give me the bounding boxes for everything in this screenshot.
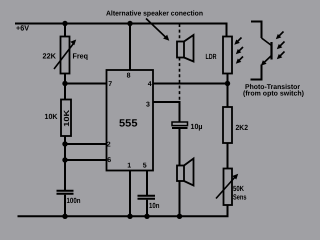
svg-text:6: 6 — [107, 157, 111, 164]
node junction pin6 — [62, 157, 67, 162]
node junction 22K top — [62, 21, 67, 26]
capacitor 10u electrolytic — [172, 122, 188, 126]
wire pin 7 — [65, 83, 107, 85]
wire pin 8 — [129, 24, 131, 70]
node junction pin1 rail — [127, 214, 132, 219]
svg-text:2K2: 2K2 — [236, 123, 249, 132]
node junction 10n rail — [144, 214, 149, 219]
svg-text:1: 1 — [127, 163, 131, 170]
svg-text:4: 4 — [148, 81, 152, 88]
wire emitter stub — [251, 65, 262, 80]
wire pin 6 — [65, 159, 107, 161]
potentiometer 50K Sens — [224, 169, 233, 206]
wire 2K2 to 50K — [227, 143, 229, 169]
svg-text:10K: 10K — [45, 112, 59, 121]
svg-text:Alternative speaker conection: Alternative speaker conection — [106, 9, 203, 17]
phototransistor light arrow 2 — [279, 42, 285, 48]
speaker LS1 (alternative) — [177, 42, 184, 58]
node junction 100n rail — [62, 214, 67, 219]
potentiometer 22K Freq — [61, 37, 70, 74]
svg-text:5: 5 — [143, 163, 147, 170]
wire ground rail — [18, 205, 228, 217]
LDR light arrow 3 — [238, 57, 243, 62]
wire pin 5 — [146, 171, 148, 196]
svg-text:100n: 100n — [67, 196, 81, 205]
node junction pin2 — [62, 141, 67, 146]
wire pin 4 — [153, 83, 228, 85]
wire pin 1 — [129, 171, 131, 217]
wire speaker bottom — [179, 181, 181, 216]
svg-text:555: 555 — [119, 117, 138, 129]
node junction LDR 2K2 — [225, 81, 230, 86]
transistor Q1 phototransistor top stub — [251, 22, 262, 39]
node junction speaker rail — [177, 214, 182, 219]
resistor 10K — [61, 100, 71, 137]
wire 22K top — [64, 24, 66, 37]
svg-text:8: 8 — [127, 72, 131, 79]
wire pin 3 — [153, 102, 180, 122]
transistor Q1 base bar — [270, 42, 272, 60]
wire +6V top rail — [15, 24, 227, 37]
node junction pin7 — [62, 81, 67, 86]
wire 10K bottom — [64, 136, 66, 190]
svg-text:10n: 10n — [149, 201, 160, 210]
wire 10u bottom to speaker — [179, 129, 181, 166]
svg-text:10K: 10K — [62, 109, 71, 127]
svg-text:(from opto switch): (from opto switch) — [243, 90, 304, 98]
svg-text:10µ: 10µ — [191, 122, 203, 131]
capacitor 10n — [138, 195, 156, 197]
svg-text:LDR: LDR — [206, 52, 217, 61]
svg-text:2: 2 — [107, 142, 111, 149]
op-amp U1 555 IC — [107, 70, 154, 171]
transistor Q1 emitter with arrow — [263, 56, 272, 64]
node junction pin8 rail — [127, 21, 132, 26]
wire dashed speaker top — [179, 24, 181, 42]
speaker LS2 — [177, 166, 184, 182]
wire dashed speaker bottom to pin3 — [179, 58, 181, 103]
phototransistor light arrow 3 — [279, 52, 285, 58]
phototransistor light arrow 1 — [278, 32, 284, 38]
wire arrow annotation — [146, 19, 167, 39]
resistor LDR — [223, 37, 232, 74]
svg-text:+6V: +6V — [16, 24, 29, 33]
wire pin 2 — [65, 143, 107, 145]
capacitor 100n — [57, 190, 74, 192]
wire 22K bottom to 10K — [64, 74, 66, 101]
LDR light arrow 2 — [238, 47, 243, 52]
wire LDR bottom to 2K2 — [227, 74, 229, 108]
svg-text:7: 7 — [108, 81, 112, 88]
svg-text:Freq: Freq — [73, 52, 89, 61]
wire 100n bottom — [64, 195, 66, 217]
resistor 2K2 — [223, 107, 232, 143]
LDR light arrow 1 — [237, 38, 242, 43]
transistor Q1 collector — [262, 38, 272, 46]
svg-text:Sens: Sens — [233, 192, 247, 201]
wire 10n bottom — [146, 200, 148, 217]
svg-text:22K: 22K — [43, 52, 57, 61]
svg-text:3: 3 — [146, 102, 150, 109]
